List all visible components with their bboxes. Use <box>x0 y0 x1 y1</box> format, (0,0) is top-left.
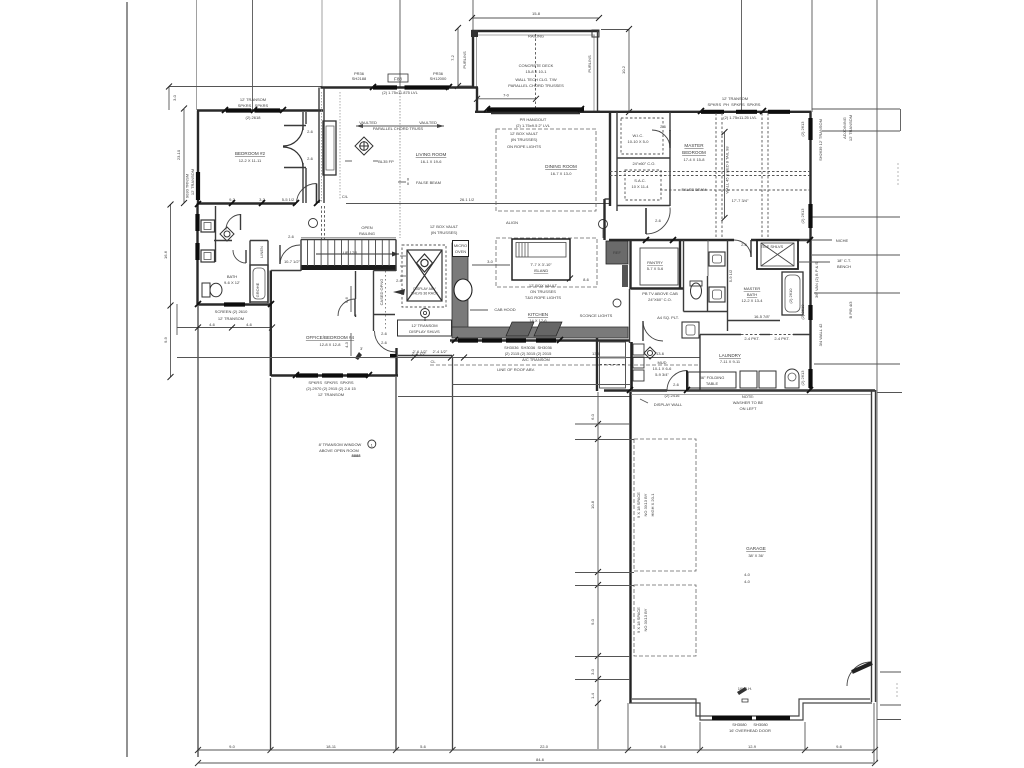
svg-text:12-2 X 11-11: 12-2 X 11-11 <box>239 158 262 163</box>
property line left <box>126 2 128 757</box>
svg-text:NO 3X13 BY: NO 3X13 BY <box>643 493 648 516</box>
extension line x452 bottom <box>452 358 454 751</box>
svg-text:4-3: 4-3 <box>344 341 349 348</box>
folding table boxed <box>688 372 736 388</box>
garage east wall double <box>871 390 873 702</box>
svg-text:BATH: BATH <box>747 292 757 297</box>
svg-text:2-6: 2-6 <box>741 242 748 247</box>
svg-text:6-0: 6-0 <box>590 413 595 420</box>
svg-text:MASTER: MASTER <box>744 286 761 291</box>
garage door window band <box>712 716 752 720</box>
property line right <box>876 0 878 762</box>
master bath door arc <box>643 321 663 341</box>
svg-text:PURLINS: PURLINS <box>587 55 592 73</box>
left vertical dim chain <box>183 108 185 203</box>
svg-text:ISLAND: ISLAND <box>534 268 549 273</box>
svg-text:WASHER TO BE: WASHER TO BE <box>733 400 764 405</box>
svg-text:7'-7 X 3'-10": 7'-7 X 3'-10" <box>530 262 552 267</box>
svg-text:23-10: 23-10 <box>176 149 181 160</box>
svg-text:4-0: 4-0 <box>744 579 751 584</box>
living room centerline dashed <box>399 90 401 238</box>
deck label <box>508 63 564 88</box>
svg-text:12' TRANSOM: 12' TRANSOM <box>240 97 266 102</box>
svg-text:(2) 1.75x9.5 2" LVL: (2) 1.75x9.5 2" LVL <box>516 123 551 128</box>
svg-text:3-0: 3-0 <box>590 668 595 675</box>
svg-text:ADJOINING: ADJOINING <box>842 117 847 139</box>
svg-text:10-10 X 5-0: 10-10 X 5-0 <box>628 139 650 144</box>
stairs <box>301 238 399 272</box>
svg-text:TABLE: TABLE <box>706 381 719 386</box>
hall bath west wall <box>196 204 198 305</box>
label below deck door <box>516 117 551 128</box>
svg-text:W.I.C.: W.I.C. <box>633 133 644 138</box>
svg-text:PR HANGOUT: PR HANGOUT <box>520 117 547 122</box>
svg-text:5-9 3/4": 5-9 3/4" <box>655 372 669 377</box>
garage door car symbol <box>737 687 748 702</box>
wall between bedroom and living <box>318 88 320 204</box>
svg-text:3': 3' <box>360 346 363 351</box>
svg-text:17'-7 3/4": 17'-7 3/4" <box>732 198 749 203</box>
toilet master <box>691 283 702 299</box>
svg-text:12' TRANSOM: 12' TRANSOM <box>218 316 244 321</box>
house south wall (laundry/mud) <box>604 389 667 391</box>
svg-text:VAULTED: VAULTED <box>419 120 437 125</box>
svg-text:PB TV ABOVE CAB: PB TV ABOVE CAB <box>642 291 678 296</box>
extension line x270 bottom <box>270 378 272 750</box>
svg-text:24"X60" C.O.: 24"X60" C.O. <box>648 297 672 302</box>
svg-text:PANTRY: PANTRY <box>647 260 663 265</box>
office door swing person <box>355 352 362 360</box>
svg-text:FALSE BEAM: FALSE BEAM <box>416 180 441 185</box>
svg-text:2-6: 2-6 <box>655 218 662 223</box>
east windows <box>808 118 812 140</box>
hall walls around bath <box>249 241 251 304</box>
svg-text:22-0: 22-0 <box>540 744 549 749</box>
extension line x812 top <box>811 0 813 112</box>
svg-text:15-8 X 10-1: 15-8 X 10-1 <box>526 69 548 74</box>
deck left vertical dim <box>457 28 459 86</box>
svg-text:RAILING: RAILING <box>359 231 375 236</box>
living room labels <box>359 120 437 131</box>
svg-text:NO 3X13 BY: NO 3X13 BY <box>643 608 648 631</box>
svg-text:ON TRUSSES: ON TRUSSES <box>530 289 556 294</box>
circled fixture symbols <box>599 220 608 229</box>
false beam dashed <box>407 178 409 186</box>
svg-text:16-1 X 19-6: 16-1 X 19-6 <box>421 159 443 164</box>
svg-text:(IN TRUSSES): (IN TRUSSES) <box>511 137 538 142</box>
fireplace centerline dotted <box>339 92 341 200</box>
bedroom west window <box>196 172 200 200</box>
svg-text:CL: CL <box>430 359 436 364</box>
mud room bench wall <box>630 342 633 391</box>
wine rack X square <box>407 250 442 301</box>
svg-text:SPKRS PH SPKRS SPKRS: SPKRS PH SPKRS SPKRS <box>708 102 761 107</box>
svg-text:DINING ROOM: DINING ROOM <box>545 164 577 169</box>
office right wall upper <box>373 271 375 332</box>
master bath tub <box>782 272 803 315</box>
svg-text:LINE OF ROOF ABV.: LINE OF ROOF ABV. <box>497 367 535 372</box>
svg-text:OPEN: OPEN <box>361 225 372 230</box>
kitchen west counter <box>452 243 468 331</box>
extension line x400 top <box>399 0 401 88</box>
concrete deck <box>471 30 600 111</box>
right side extension lines <box>812 109 902 720</box>
svg-text:(2) 2613: (2) 2613 <box>800 208 805 224</box>
office/bedroom4 <box>270 271 272 377</box>
garage north wall right portion double <box>631 390 875 392</box>
master bath shower <box>757 240 798 269</box>
svg-text:14 X 17-6: 14 X 17-6 <box>529 318 547 323</box>
window labels below kitchen <box>504 345 553 362</box>
mid dim line <box>177 357 700 359</box>
bedroom2 north window <box>226 108 251 112</box>
svg-text:4-6: 4-6 <box>246 322 253 327</box>
svg-text:(2) 2610: (2) 2610 <box>788 288 793 304</box>
living room north wall <box>321 86 479 88</box>
bedroom west wall <box>197 111 199 205</box>
svg-text:10-7 1/2": 10-7 1/2" <box>284 259 301 264</box>
nook 7-0 dim <box>477 98 536 100</box>
svg-text:WALL 45 X BED 8 TAIL 98: WALL 45 X BED 8 TAIL 98 <box>725 146 730 194</box>
dry bar south wall <box>398 355 452 357</box>
dining box vault dashed rect <box>496 129 596 211</box>
svg-text:84-6: 84-6 <box>536 757 545 762</box>
kitchen box vault dashed rect <box>496 238 597 287</box>
svg-text:B P/B 4/3: B P/B 4/3 <box>848 301 853 319</box>
toilet <box>210 283 222 297</box>
display wall <box>395 348 397 376</box>
svg-text:UP 17R: UP 17R <box>343 250 357 255</box>
extension line x196 top <box>196 0 198 110</box>
svg-text:16' OVERHEAD DOOR: 16' OVERHEAD DOOR <box>729 728 771 733</box>
svg-text:12' TRANSOM: 12' TRANSOM <box>411 323 437 328</box>
living room north windows <box>373 85 397 89</box>
svg-text:SH2639 12' TRANSOM: SH2639 12' TRANSOM <box>818 119 823 161</box>
svg-text:10-2: 10-2 <box>621 65 626 74</box>
bench note <box>798 261 830 263</box>
svg-text:SH3080 SH3080: SH3080 SH3080 <box>732 722 768 727</box>
svg-text:16-5 7/8": 16-5 7/8" <box>754 314 771 319</box>
svg-text:5-9 1/2: 5-9 1/2 <box>728 269 733 282</box>
svg-text:(2)-2970 (2) 2915 (2) 2-6 15: (2)-2970 (2) 2915 (2) 2-6 15 <box>306 386 356 391</box>
wall step living to nook <box>476 88 478 113</box>
svg-text:(2) 2618: (2) 2618 <box>246 115 262 120</box>
bath south wall <box>198 303 273 305</box>
svg-text:PARALLEL CHORD TRUSSES: PARALLEL CHORD TRUSSES <box>508 83 564 88</box>
svg-text:T&G ROPE LIGHTS: T&G ROPE LIGHTS <box>525 295 562 300</box>
svg-text:GARAGE: GARAGE <box>746 546 766 551</box>
garage entry door <box>847 662 871 686</box>
svg-text:2-6: 2-6 <box>381 340 388 345</box>
washer dryer <box>740 371 757 388</box>
svg-text:A4 SQ. PLT.: A4 SQ. PLT. <box>657 315 679 320</box>
svg-text:8-6: 8-6 <box>583 277 590 282</box>
patio lines left of garage <box>452 384 630 386</box>
diamond symbol <box>644 347 656 359</box>
svg-text:OFFICE/BEDROOM #4: OFFICE/BEDROOM #4 <box>306 335 355 340</box>
nook north wall <box>475 111 600 113</box>
svg-text:SCREEN (2) 2610: SCREEN (2) 2610 <box>215 309 248 314</box>
office south wall <box>271 374 398 376</box>
svg-text:4-6: 4-6 <box>209 322 216 327</box>
mud/laundry wall <box>700 334 741 336</box>
svg-text:MICRO: MICRO <box>454 243 467 248</box>
svg-text:7-11 X 9-11: 7-11 X 9-11 <box>720 359 741 364</box>
window seat cabinet <box>323 121 336 175</box>
svg-text:9-6: 9-6 <box>836 744 843 749</box>
circle fixture below wine <box>421 309 430 318</box>
svg-text:BENCH: BENCH <box>837 264 851 269</box>
closet bifold doors <box>283 126 303 146</box>
svg-text:13-6: 13-6 <box>656 351 665 356</box>
tray ceiling dashed <box>715 113 717 240</box>
bedroom door <box>297 184 317 204</box>
beam line across living room <box>346 203 609 205</box>
svg-text:LIVING ROOM: LIVING ROOM <box>416 152 447 157</box>
svg-text:ON ROPE LIGHTS: ON ROPE LIGHTS <box>507 144 541 149</box>
bottom dimension line 1 <box>198 749 875 751</box>
svg-text:4-0: 4-0 <box>744 572 751 577</box>
svg-text:LAUNDRY: LAUNDRY <box>719 353 741 358</box>
SAC closet <box>625 170 661 200</box>
svg-text:5-7 X 5-6: 5-7 X 5-6 <box>647 266 664 271</box>
hallway wall left of mud <box>596 338 598 391</box>
island <box>512 239 570 280</box>
wine / dry bar area <box>402 245 446 307</box>
svg-text:12-9: 12-9 <box>748 744 757 749</box>
svg-text:9030 TRNSM: 9030 TRNSM <box>185 174 190 198</box>
svg-text:MASTER: MASTER <box>684 143 704 148</box>
svg-text:PURLINS: PURLINS <box>462 51 467 69</box>
svg-text:(2) 2613: (2) 2613 <box>800 121 805 137</box>
svg-text:CAB HOOD: CAB HOOD <box>494 307 515 312</box>
vanity fixtures <box>201 220 215 232</box>
svg-text:2-6: 2-6 <box>673 382 680 387</box>
svg-text:7-0: 7-0 <box>503 93 510 98</box>
svg-text:SCONCE LIGHTS: SCONCE LIGHTS <box>580 313 613 318</box>
svg-text:(2) 1.75x11.25 LVL: (2) 1.75x11.25 LVL <box>723 115 757 120</box>
svg-text:7-2: 7-2 <box>450 54 455 61</box>
svg-text:8' TRANSOM WINDOW: 8' TRANSOM WINDOW <box>319 442 362 447</box>
svg-text:MUD: MUD <box>657 360 666 365</box>
svg-text:S.A.C.: S.A.C. <box>634 178 646 183</box>
svg-text:(2) 2115 (2) 3015 (2) 2015: (2) 2115 (2) 3015 (2) 2015 <box>505 351 552 356</box>
tub <box>250 265 268 302</box>
deck dimension line <box>472 17 599 19</box>
svg-text:18-11: 18-11 <box>326 744 337 749</box>
svg-text:12-2 X 13-4: 12-2 X 13-4 <box>742 298 764 303</box>
svg-text:12' TRANSOM: 12' TRANSOM <box>722 96 748 101</box>
niche note <box>800 239 832 241</box>
extension line x252 top <box>252 0 254 111</box>
svg-text:1-4: 1-4 <box>590 692 595 699</box>
bedroom south wall <box>198 202 296 204</box>
bath west windows <box>195 214 199 231</box>
svg-text:3-0: 3-0 <box>487 259 494 264</box>
svg-text:LINEN: LINEN <box>259 246 264 258</box>
svg-text:10 X 11-4: 10 X 11-4 <box>631 184 649 189</box>
svg-text:2-6: 2-6 <box>288 234 295 239</box>
kitchen sink <box>454 279 472 301</box>
office door <box>375 331 396 352</box>
svg-text:PARALLEL CHORD TRUSS: PARALLEL CHORD TRUSS <box>373 126 423 131</box>
svg-text:FALSE BEAM: FALSE BEAM <box>682 187 707 192</box>
kitchen/dining divider wall <box>603 199 605 240</box>
garage west wall <box>629 392 631 703</box>
extension line x322 top <box>321 0 323 88</box>
vanity sinks <box>709 252 725 266</box>
micro oven box <box>453 241 469 257</box>
svg-text:RAILING: RAILING <box>528 34 544 39</box>
extension line x396 bottom <box>395 377 397 750</box>
svg-text:DISPLAY WALL: DISPLAY WALL <box>654 402 683 407</box>
svg-text:12-8 X 12-8: 12-8 X 12-8 <box>320 342 342 347</box>
svg-text:9 X 18 SPACE: 9 X 18 SPACE <box>636 492 641 518</box>
svg-text:2-6: 2-6 <box>381 331 388 336</box>
svg-text:15-8: 15-8 <box>532 11 541 16</box>
REF box <box>606 241 628 264</box>
junction tick marks <box>195 84 813 393</box>
svg-text:SPKRS SPKRS: SPKRS SPKRS <box>238 103 269 108</box>
vanity master <box>682 322 699 338</box>
bottom dim texts <box>229 744 843 762</box>
svg-text:38' X 36': 38' X 36' <box>748 553 764 558</box>
svg-text:SH12000: SH12000 <box>430 76 447 81</box>
svg-text:REF: REF <box>613 250 622 255</box>
svg-text:6-6: 6-6 <box>344 296 349 303</box>
svg-text:10-1 X 6-6: 10-1 X 6-6 <box>653 366 672 371</box>
laundry sink <box>785 369 799 388</box>
master suite north wall <box>598 111 811 113</box>
svg-text:2-6: 2-6 <box>307 156 314 161</box>
svg-text:BATH: BATH <box>227 274 237 279</box>
line of roof above <box>430 364 700 366</box>
svg-text:SH2188: SH2188 <box>352 76 367 81</box>
master north window <box>701 110 724 114</box>
svg-text:26.1 1/2: 26.1 1/2 <box>460 197 475 202</box>
bath dim line <box>177 327 272 329</box>
svg-text:DISPLAY SHLVS: DISPLAY SHLVS <box>409 329 440 334</box>
svg-text:17-4 X 15-8: 17-4 X 15-8 <box>684 157 706 162</box>
garage dashed rect 2 <box>634 585 696 656</box>
svg-text:2'-4 1/2": 2'-4 1/2" <box>412 351 427 356</box>
master south wall <box>609 239 734 241</box>
mud hall west wall <box>629 289 631 343</box>
dry bar display box <box>398 320 452 336</box>
svg-text:BL35 FP: BL35 FP <box>378 159 394 164</box>
svg-text:16' O.H.: 16' O.H. <box>738 686 753 691</box>
svg-text:2-6: 2-6 <box>307 129 314 134</box>
svg-text:GROHE: GROHE <box>255 282 260 297</box>
svg-text:F88: F88 <box>394 77 402 82</box>
svg-text:9-9: 9-9 <box>163 336 168 343</box>
bottom dimension line 2 <box>198 762 875 764</box>
svg-text:WALL TECH CLG. T/W: WALL TECH CLG. T/W <box>515 77 557 82</box>
island dim <box>472 264 510 266</box>
svg-text:12' BOX VAULT: 12' BOX VAULT <box>510 131 539 136</box>
svg-text:2'-4 1/2": 2'-4 1/2" <box>433 349 448 354</box>
shower door path <box>734 240 751 257</box>
shelf marks <box>400 256 406 276</box>
range <box>506 322 562 336</box>
svg-text:3/4 WALL 42: 3/4 WALL 42 <box>818 323 823 347</box>
garage future stalls dashed rect 1 <box>634 439 696 571</box>
extension line x741 top <box>741 0 743 112</box>
landing walls below stairs <box>355 271 357 299</box>
svg-text:16-6: 16-6 <box>163 250 168 259</box>
house east wall <box>809 112 811 392</box>
svg-text:(IN TRUSSES): (IN TRUSSES) <box>431 230 458 235</box>
svg-text:2-4 PKT.: 2-4 PKT. <box>774 336 789 341</box>
svg-text:9-6: 9-6 <box>660 744 667 749</box>
ceiling fan symbol <box>355 137 373 155</box>
bath diamond fixture <box>220 227 234 241</box>
bottom dim ticks <box>195 747 878 766</box>
svg-text:12' TRANSOM: 12' TRANSOM <box>848 115 853 141</box>
svg-text:ALIGN: ALIGN <box>506 220 518 225</box>
svg-text:5-5 1/2: 5-5 1/2 <box>282 197 295 202</box>
svg-text:2-4 PKT.: 2-4 PKT. <box>744 336 759 341</box>
svg-text:12' TRANSOM: 12' TRANSOM <box>190 169 195 195</box>
kitchen bottom counter <box>452 327 628 338</box>
svg-text:8888: 8888 <box>352 453 362 458</box>
svg-text:SH3036 SH3036 SH3036: SH3036 SH3036 SH3036 <box>504 345 553 350</box>
svg-text:CASED OPNG: CASED OPNG <box>379 279 384 306</box>
closet right wall <box>305 112 307 124</box>
svg-text:12' TRANSOM: 12' TRANSOM <box>318 392 344 397</box>
deck center dashed line <box>535 34 537 110</box>
svg-text:BEDROOM: BEDROOM <box>682 150 706 155</box>
svg-text:SHLVS 36 RACK: SHLVS 36 RACK <box>411 292 438 296</box>
svg-text:HIGH X 20-1: HIGH X 20-1 <box>650 493 655 517</box>
svg-text:KITCHEN: KITCHEN <box>528 312 548 317</box>
garage left extension ticks <box>575 424 634 680</box>
hall door to bedroom area <box>280 245 300 264</box>
svg-text:5-6: 5-6 <box>420 744 427 749</box>
master bath walls <box>683 240 685 312</box>
garage left dim chain <box>597 392 599 749</box>
svg-text:SPKRS SPKRS SPKRS: SPKRS SPKRS SPKRS <box>308 380 353 385</box>
svg-text:24"x60" C.O.: 24"x60" C.O. <box>632 161 655 166</box>
svg-text:9-0: 9-0 <box>590 618 595 625</box>
svg-text:BEDROOM #2: BEDROOM #2 <box>235 151 266 156</box>
svg-text:(2) 2613: (2) 2613 <box>800 370 805 386</box>
deck sliding door <box>487 107 584 111</box>
svg-text:16-7 X 13-0: 16-7 X 13-0 <box>551 171 573 176</box>
svg-text:CONCRETE DECK: CONCRETE DECK <box>519 63 554 68</box>
deck right vertical dim <box>628 29 630 112</box>
svg-text:ON LEFT: ON LEFT <box>740 406 757 411</box>
svg-text:9 X 18 SPACE: 9 X 18 SPACE <box>636 607 641 633</box>
bath door arcs <box>226 215 241 230</box>
extension line x478 top <box>472 0 474 31</box>
svg-text:DISPLAY ABV: DISPLAY ABV <box>413 287 436 291</box>
F88 header label <box>388 74 408 82</box>
svg-text:2-6: 2-6 <box>660 124 667 129</box>
top dim line left <box>169 86 322 88</box>
svg-text:9-6 X 12': 9-6 X 12' <box>224 280 240 285</box>
vertical dim office right <box>350 286 352 312</box>
extension line x198 bottom <box>197 306 199 757</box>
svg-text:10-8: 10-8 <box>590 500 595 509</box>
kitchen south wall <box>450 339 630 341</box>
svg-text:VAULTED: VAULTED <box>359 120 377 125</box>
garage south wall <box>629 699 872 720</box>
WIC <box>609 112 611 206</box>
svg-text:TILE SHLVS: TILE SHLVS <box>761 244 784 249</box>
transom note above open room <box>319 442 362 458</box>
pantry <box>629 240 631 289</box>
